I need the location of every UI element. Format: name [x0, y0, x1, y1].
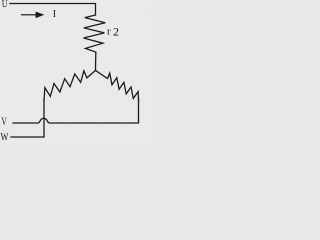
resistor r2 (vertical zigzag) [84, 15, 106, 52]
svg-text:W: W [1, 130, 9, 144]
resistor: left phase winding (star node to W) [44, 70, 96, 100]
wire: left resistor down to W line (crosses V line under hop) [11, 100, 44, 138]
svg-text:2: 2 [113, 24, 119, 38]
wire: right resistor down to V line corner [138, 99, 140, 123]
svg-text:V: V [1, 114, 7, 128]
svg-text:r: r [107, 27, 111, 38]
wire: U terminal to top-right corner [10, 4, 96, 16]
current arrow I [21, 13, 43, 18]
resistor: right phase winding (star node to V) [96, 70, 139, 100]
wire: resistor r2 bottom to star node [95, 52, 97, 70]
wire: terminal V line with hop over W branch wire [13, 118, 139, 123]
svg-text:I: I [53, 9, 56, 20]
svg-text:U: U [2, 0, 8, 10]
